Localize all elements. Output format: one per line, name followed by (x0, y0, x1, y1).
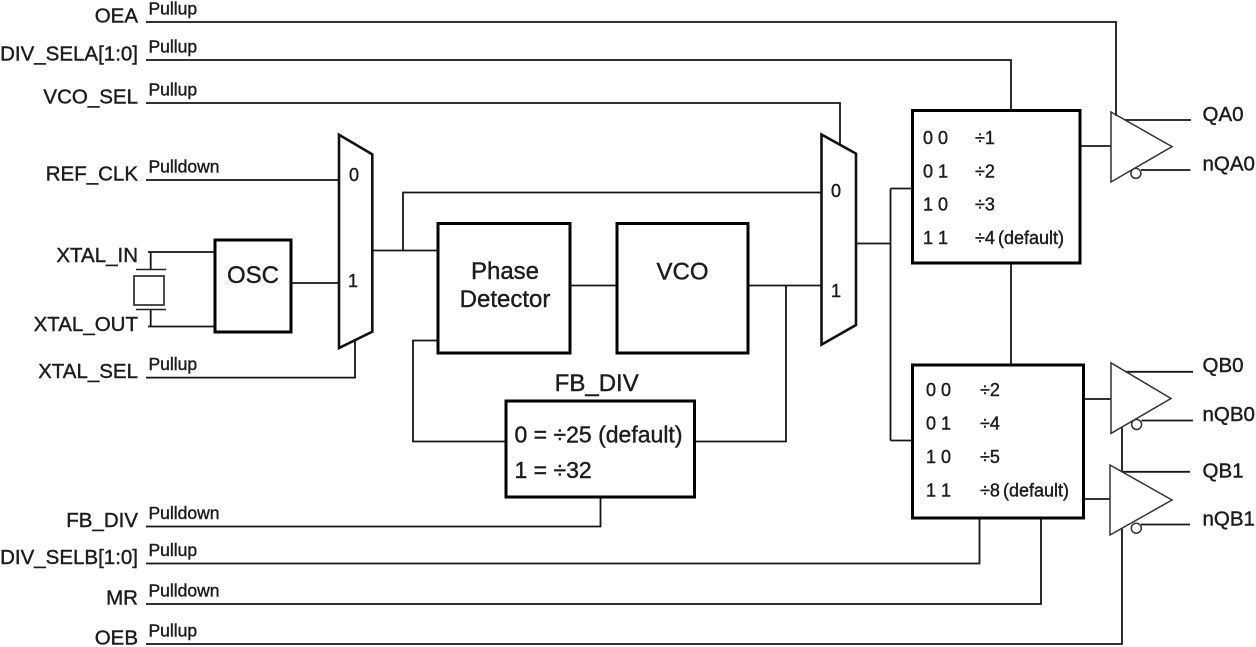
svg-text:0: 0 (349, 165, 359, 185)
block divider A (913, 111, 1081, 264)
svg-text:0 1: 0 1 (923, 161, 948, 181)
wire DIV_SELA[1:0] (146, 60, 1011, 111)
svg-text:0 0: 0 0 (926, 380, 951, 400)
wire divider B to QB1 buffer (1084, 498, 1111, 500)
wire divider A to QA0 buffer (1080, 145, 1111, 147)
wire mux2 output (856, 243, 891, 245)
wire phase detector to VCO (570, 285, 617, 287)
buffer QB1 inversion bubble (1131, 523, 1141, 533)
svg-text:÷2: ÷2 (980, 380, 1000, 400)
svg-text:Pullup: Pullup (149, 354, 198, 374)
svg-text:OEA: OEA (95, 5, 139, 28)
svg-text:1: 1 (348, 271, 358, 291)
buffer QA0 inversion bubble (1131, 168, 1141, 178)
block VCO (617, 224, 748, 354)
svg-text:1 0: 1 0 (923, 195, 948, 215)
block OSC (215, 240, 291, 332)
crystal X1 body (134, 276, 164, 305)
mux M2 (822, 135, 857, 345)
block divider B (913, 365, 1084, 518)
svg-text:Pullup: Pullup (149, 0, 198, 19)
svg-text:÷2: ÷2 (975, 161, 995, 181)
svg-text:0: 0 (831, 181, 841, 201)
wire nQB0 output (1142, 420, 1194, 422)
svg-text:Pullup: Pullup (149, 621, 198, 641)
svg-text:(default): (default) (998, 228, 1064, 248)
svg-text:REF_CLK: REF_CLK (46, 163, 139, 186)
svg-text:FB_DIV: FB_DIV (555, 370, 639, 397)
wire XTAL_SEL (146, 340, 355, 378)
buffer QA0 (1111, 112, 1172, 182)
svg-text:XTAL_SEL: XTAL_SEL (38, 360, 138, 383)
wire DIV_SELB[1:0] (146, 517, 980, 564)
svg-text:OSC: OSC (227, 262, 279, 289)
svg-text:nQB0: nQB0 (1203, 403, 1255, 426)
wire OSC to mux1 input 1 (291, 282, 339, 284)
wire to divider B input (891, 440, 913, 442)
svg-text:OEB: OEB (95, 627, 138, 647)
wire XTAL_OUT crystal stub (150, 309, 152, 327)
wire divider B to QB0 buffer (1084, 398, 1112, 400)
svg-text:1 = ÷32: 1 = ÷32 (515, 457, 592, 483)
wire OEA (146, 22, 1116, 116)
buffer QB1 (1110, 465, 1172, 535)
wire QB1 output (1122, 471, 1190, 473)
svg-text:Pulldown: Pulldown (149, 503, 220, 523)
svg-text:÷8: ÷8 (980, 481, 1000, 501)
svg-text:Pulldown: Pulldown (149, 581, 220, 601)
svg-text:DIV_SELA[1:0]: DIV_SELA[1:0] (0, 43, 138, 66)
svg-text:nQB1: nQB1 (1203, 508, 1255, 531)
crystal X1 bottom plate (136, 309, 166, 311)
svg-text:Detector: Detector (460, 286, 551, 313)
svg-text:MR: MR (106, 587, 138, 610)
wire VCO_SEL (146, 103, 840, 146)
svg-text:VCO: VCO (656, 258, 708, 285)
svg-text:÷4: ÷4 (980, 414, 1000, 434)
svg-text:÷4: ÷4 (975, 228, 995, 248)
svg-text:1 1: 1 1 (926, 481, 951, 501)
svg-text:1 0: 1 0 (926, 447, 951, 467)
wire OEB between QB0 and QB1 (1121, 428, 1123, 472)
mux M1 (339, 135, 372, 348)
svg-text:Pulldown: Pulldown (149, 157, 220, 177)
wire mux1 output to phase detector (372, 250, 438, 252)
wire REF_CLK (146, 179, 339, 181)
svg-text:0 1: 0 1 (926, 414, 951, 434)
svg-text:1: 1 (831, 281, 841, 301)
svg-text:Phase: Phase (471, 258, 539, 285)
block phase detector (438, 224, 570, 354)
svg-text:QA0: QA0 (1203, 103, 1244, 126)
svg-text:1 1: 1 1 (923, 228, 948, 248)
buffer QB0 (1111, 363, 1171, 434)
buffer QB0 inversion bubble (1132, 420, 1142, 430)
wire QB0 output (1126, 371, 1193, 373)
svg-text:nQA0: nQA0 (1203, 153, 1255, 176)
wire XTAL_IN crystal stub (150, 252, 152, 270)
svg-text:DIV_SELB[1:0]: DIV_SELB[1:0] (0, 546, 138, 569)
wire QA0 output (1125, 119, 1191, 121)
wire FB_DIV select (146, 496, 601, 527)
svg-text:Pullup: Pullup (149, 540, 198, 560)
svg-text:0 0: 0 0 (923, 128, 948, 148)
wire XTAL_OUT (148, 326, 216, 328)
wire MR (146, 517, 1041, 604)
svg-text:÷5: ÷5 (980, 447, 1000, 467)
svg-text:Pullup: Pullup (149, 80, 198, 100)
svg-text:÷1: ÷1 (975, 128, 995, 148)
wire OEB (146, 529, 1122, 645)
svg-text:0 = ÷25 (default): 0 = ÷25 (default) (515, 422, 683, 448)
wire node riser to mux2 input 0 (403, 193, 822, 251)
crystal X1 top plate (136, 269, 166, 271)
wire VCO output feedback riser (695, 286, 787, 442)
wire nQA0 output (1141, 169, 1191, 171)
wire nQB1 output (1141, 524, 1190, 526)
svg-text:Pullup: Pullup (149, 37, 198, 57)
wire FB_DIV to phase detector feedback (413, 341, 506, 442)
svg-text:FB_DIV: FB_DIV (66, 509, 138, 532)
svg-text:(default): (default) (1003, 481, 1069, 501)
svg-text:QB1: QB1 (1203, 460, 1244, 483)
block FB_DIV (506, 401, 695, 497)
wire divider A to divider B link (1010, 263, 1012, 365)
wire XTAL_IN (148, 251, 216, 253)
wire VCO output to mux2 input 1 (748, 285, 822, 287)
svg-text:QB0: QB0 (1203, 354, 1244, 377)
svg-text:÷3: ÷3 (975, 195, 995, 215)
svg-text:XTAL_IN: XTAL_IN (56, 244, 138, 267)
wire to divider A input (891, 188, 913, 190)
wire clock bus riser (890, 189, 892, 441)
svg-text:XTAL_OUT: XTAL_OUT (34, 313, 139, 336)
svg-text:VCO_SEL: VCO_SEL (43, 86, 138, 109)
